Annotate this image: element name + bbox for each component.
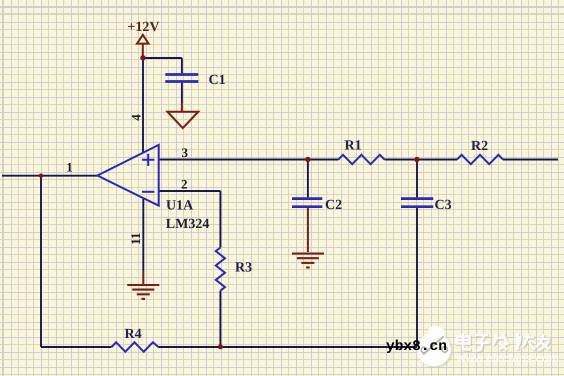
svg-text:C1: C1 bbox=[209, 73, 226, 88]
svg-text:1: 1 bbox=[66, 160, 73, 175]
svg-text:2: 2 bbox=[181, 176, 188, 191]
svg-text:11: 11 bbox=[128, 233, 143, 245]
svg-text:+12V: +12V bbox=[127, 20, 159, 35]
svg-text:C2: C2 bbox=[325, 198, 342, 213]
svg-text:www.elecfans.com: www.elecfans.com bbox=[456, 353, 559, 365]
svg-text:R1: R1 bbox=[345, 139, 362, 154]
svg-text:ybx8.cn: ybx8.cn bbox=[386, 339, 447, 355]
svg-text:U1A: U1A bbox=[166, 199, 194, 214]
svg-text:LM324: LM324 bbox=[166, 217, 210, 232]
svg-text:R4: R4 bbox=[125, 327, 142, 342]
svg-text:R3: R3 bbox=[235, 261, 252, 276]
svg-text:3: 3 bbox=[182, 145, 189, 160]
svg-text:4: 4 bbox=[129, 114, 144, 121]
svg-text:C3: C3 bbox=[435, 198, 452, 213]
svg-text:R2: R2 bbox=[471, 139, 488, 154]
